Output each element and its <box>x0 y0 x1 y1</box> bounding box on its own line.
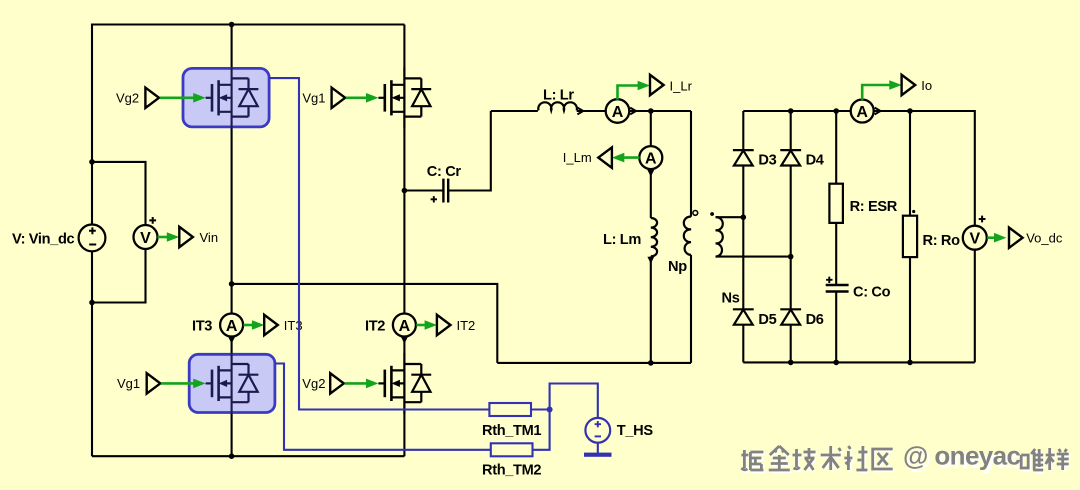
wire leg1 lower (IT3 meter to bottom rail) <box>231 337 233 457</box>
wire Ns bottom link <box>716 256 791 258</box>
probe triangle Io <box>902 75 916 95</box>
probe arrow IT2 (green) <box>416 320 437 330</box>
node bottom rail D4 <box>788 360 794 366</box>
wire Rth_TM1 to node <box>531 408 550 410</box>
ammeter Io <box>851 100 874 123</box>
probe arrow Io (green) <box>862 80 902 100</box>
node Lm bottom <box>648 360 654 366</box>
svg-text:I_Lm: I_Lm <box>563 150 592 165</box>
svg-text:R: ESR: R: ESR <box>850 199 898 215</box>
svg-text:D6: D6 <box>806 312 824 328</box>
diode D6 <box>780 309 801 324</box>
direction chevron after Lr <box>577 108 583 115</box>
gate probe triangle Vg1 bottom-left <box>147 373 161 393</box>
node top rail / leg1 <box>229 22 235 28</box>
wire Lr to ammeter <box>577 110 606 112</box>
direction arrow below I_Lm ammeter <box>647 170 654 177</box>
wire Np leg lower <box>690 255 692 363</box>
probe arrow I_Lm (green, pointing left) <box>612 153 640 163</box>
svg-text:A: A <box>399 318 411 335</box>
node Cr tap <box>402 188 408 194</box>
node top rail Ro <box>907 108 913 114</box>
source T_HS <box>585 418 610 443</box>
gate arrow Vg2 bottom (green) <box>345 379 379 389</box>
probe triangle Vin <box>179 227 193 247</box>
resistor Rth_TM2 <box>491 443 533 456</box>
svg-text:I_Lr: I_Lr <box>670 79 693 94</box>
diode D3 <box>733 150 754 165</box>
inductor L: Lr <box>538 102 577 110</box>
watermark <box>741 441 1070 474</box>
wire from top-left MOSFET box to Rth_TM1 <box>269 78 489 409</box>
svg-text:R: Ro: R: Ro <box>923 233 961 249</box>
svg-text:A: A <box>645 150 657 167</box>
winding Ns <box>716 217 723 256</box>
svg-text:Rth_TM1: Rth_TM1 <box>482 423 541 439</box>
wire node up to T_HS <box>550 384 598 418</box>
wire midpoint return <box>232 284 498 363</box>
node voltmeter branch bottom <box>89 300 95 306</box>
resistor R: Ro <box>903 216 917 257</box>
direction arrow below Lm <box>647 257 654 264</box>
wire Cr left <box>404 189 443 191</box>
svg-text:D5: D5 <box>758 312 776 328</box>
ammeter I_Lm <box>639 146 662 169</box>
wire ammeter to Np corner <box>630 110 692 112</box>
svg-text:Rth_TM2: Rth_TM2 <box>482 462 541 478</box>
svg-text:Vo_dc: Vo_dc <box>1026 231 1063 246</box>
node top rail D4 <box>788 108 794 114</box>
svg-text:Io: Io <box>921 78 932 93</box>
svg-text:A: A <box>612 104 624 121</box>
voltmeter Vo_dc <box>963 216 987 250</box>
wire leg2 upper <box>403 25 405 315</box>
voltage source V: Vin_dc <box>79 225 106 252</box>
node bottom rail / leg1 <box>229 453 235 459</box>
wire node down to Rth_TM2 <box>533 410 550 450</box>
mosfet Q (Vg1 bottom-left) <box>206 353 259 414</box>
svg-text:Vg1: Vg1 <box>117 376 140 391</box>
svg-text:L: Lr: L: Lr <box>543 88 574 104</box>
gate probe triangle Vg2 top-left <box>145 88 159 108</box>
ammeter IT3 <box>220 314 243 337</box>
svg-text:C: Co: C: Co <box>853 284 891 300</box>
node bottom rail Ro <box>907 360 913 366</box>
diode D5 <box>733 309 754 324</box>
svg-text:Vin: Vin <box>200 230 219 245</box>
selection box Q top-left <box>183 68 269 127</box>
ammeter I_Lr <box>606 99 630 123</box>
gate probe triangle Vg2 bottom-right <box>330 373 344 393</box>
svg-text:C: Cr: C: Cr <box>427 164 462 180</box>
svg-text:T_HS: T_HS <box>617 423 654 439</box>
probe arrow I_Lr (green) <box>618 81 651 100</box>
wire top rail <box>92 23 404 25</box>
node blue junction <box>547 407 553 413</box>
resistor Rth_TM1 <box>489 403 531 416</box>
wire Cr right and up <box>448 111 491 191</box>
node Ns bottom / D4 branch <box>788 254 794 260</box>
svg-text:IT3: IT3 <box>192 319 212 335</box>
wire secondary top rail left <box>743 110 850 112</box>
wire voltmeter branch top <box>92 162 146 225</box>
wire D4 branch <box>790 111 792 362</box>
node top rail ESR <box>833 108 839 114</box>
plus mark Co <box>826 277 832 283</box>
svg-text:V: V <box>140 230 151 247</box>
ground (thermal) <box>584 453 612 457</box>
wire leg1 upper (through Q box to IT3 meter) <box>231 25 233 314</box>
wire secondary bottom rail <box>743 361 975 363</box>
capacitor C: Co <box>826 285 849 292</box>
svg-text:A: A <box>856 104 868 121</box>
probe triangle I_Lm (pointing left) <box>598 147 612 167</box>
ammeter IT2 <box>393 314 416 337</box>
svg-text:D4: D4 <box>806 152 825 168</box>
wire D3 branch <box>742 111 744 362</box>
direction chevron after I_Lr ammeter <box>630 108 636 115</box>
wire I_Lm branch upper <box>650 111 652 146</box>
gate arrow Vg1 (green) <box>346 93 378 103</box>
svg-text:A: A <box>226 318 238 335</box>
node voltmeter branch top <box>89 159 95 165</box>
wire Ns top link <box>716 216 744 218</box>
wire ESR-Co branch <box>835 111 837 362</box>
wire Ro branch <box>909 111 911 362</box>
wire Lm bottom <box>650 256 652 363</box>
svg-text:Ns: Ns <box>722 291 740 307</box>
wire left vertical upper <box>91 24 93 225</box>
wire voltmeter Vo bottom <box>974 249 976 362</box>
resistor R: ESR <box>829 184 843 223</box>
node Ns top / D3 branch <box>741 214 747 220</box>
wire to Lr <box>491 110 538 112</box>
wire from bottom-left MOSFET box to Rth_TM2 <box>275 364 491 450</box>
gate probe triangle Vg1 top-right <box>332 88 346 108</box>
voltmeter Vin <box>134 217 158 249</box>
node I_Lr junction <box>648 108 654 114</box>
plus mark Cr <box>431 196 437 202</box>
capacitor C: Cr <box>443 179 448 203</box>
direction arrow below IT3 <box>228 337 235 344</box>
wire I_Lm meter to Lm <box>650 169 652 218</box>
selection box Q bottom-left <box>189 354 275 412</box>
direction arrow below IT2 <box>401 337 408 344</box>
wire Np leg upper <box>690 111 692 217</box>
svg-text:L: Lm: L: Lm <box>603 232 641 248</box>
polarity dot above Ro <box>912 210 915 213</box>
svg-text:V: V <box>969 231 980 248</box>
svg-text:Vg1: Vg1 <box>302 91 325 106</box>
wire primary bottom rail <box>497 362 691 364</box>
wire voltmeter branch bottom <box>92 249 146 303</box>
node midpoint return <box>229 281 235 287</box>
wire secondary top rail right <box>874 111 975 226</box>
gate arrow Vg1 bottom (green) <box>161 379 206 389</box>
probe triangle IT3 <box>264 315 278 335</box>
polarity dot Np <box>693 211 698 216</box>
svg-text:Np: Np <box>668 259 687 275</box>
winding Np <box>684 217 691 255</box>
probe arrow Vo_dc (green) <box>987 233 1006 243</box>
mosfet Q (Vg2 top-left) <box>206 67 259 128</box>
probe triangle I_Lr <box>650 75 664 95</box>
svg-text:IT2: IT2 <box>457 318 476 333</box>
svg-text:Vg2: Vg2 <box>116 91 139 106</box>
diode D4 <box>780 150 801 165</box>
wire left vertical lower <box>91 251 93 456</box>
svg-text:@ oneyac: @ oneyac <box>903 441 1021 471</box>
svg-text:IT2: IT2 <box>365 319 385 335</box>
wire leg2 lower <box>403 338 405 457</box>
svg-text:D3: D3 <box>758 152 776 168</box>
inductor L: Lm <box>651 218 657 256</box>
svg-text:V: Vin_dc: V: Vin_dc <box>12 232 75 248</box>
gate arrow Vg2 (green) <box>160 93 206 103</box>
node bottom rail ESR <box>833 360 839 366</box>
probe triangle IT2 <box>437 315 451 335</box>
svg-text:Vg2: Vg2 <box>302 376 325 391</box>
probe arrow IT3 (green) <box>243 320 264 330</box>
wire bottom rail <box>92 455 404 457</box>
wire T_HS to ground <box>597 443 599 453</box>
probe arrow Vin (green) <box>158 232 180 242</box>
direction chevron after Io ammeter <box>875 108 881 115</box>
mosfet Q (Vg2 bottom-right) <box>378 353 431 414</box>
probe triangle Vo_dc <box>1009 228 1023 248</box>
polarity dot Ns <box>710 212 714 216</box>
mosfet Q (Vg1 top-right) <box>378 67 431 128</box>
